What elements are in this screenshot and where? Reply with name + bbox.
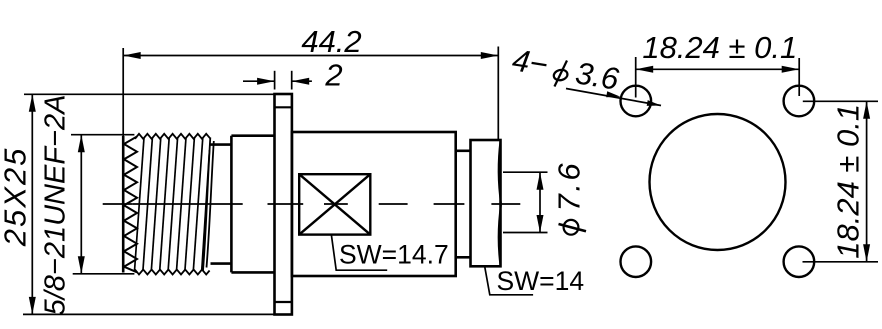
dimension 44.2 <box>497 47 499 140</box>
thread bottom serrated edge <box>135 270 210 275</box>
svg-text:18.24 ± 0.1: 18.24 ± 0.1 <box>831 104 866 259</box>
dimension 18.24 top <box>635 57 637 98</box>
front view: big circle <box>650 114 786 250</box>
leader for 4-phi3.6 <box>566 89 661 106</box>
mounting hole bottom-left <box>621 246 652 277</box>
mounting hole bottom-right <box>784 246 815 277</box>
neck between thread and step <box>211 143 232 146</box>
dimension 25X25 <box>24 93 275 95</box>
thread chamfer zigzag <box>124 137 137 273</box>
thread runout curves <box>203 138 210 271</box>
thread helix hatch lines <box>135 138 210 272</box>
svg-text:18.24 ± 0.1: 18.24 ± 0.1 <box>642 30 797 65</box>
label 4-phi3.6 <box>509 42 622 96</box>
neck between body and nut <box>456 150 471 153</box>
dimension 18.24 right <box>803 100 878 102</box>
dimension 2 (flange width) <box>274 71 276 90</box>
svg-text:2: 2 <box>324 58 342 93</box>
step section <box>230 136 233 273</box>
label SW=14 leader <box>485 267 533 295</box>
thread top serrated edge <box>135 134 210 139</box>
hex marker X-box SW=14.7 <box>299 174 370 234</box>
body rectangle <box>292 132 456 276</box>
svg-text:4−: 4− <box>510 42 550 82</box>
mounting hole top-right <box>784 86 815 117</box>
dimension phi 7.6 <box>503 171 548 173</box>
coupling nut SW=14 <box>471 140 501 266</box>
dimension 5/8-21UNEF-2A <box>71 134 134 136</box>
centerline <box>103 203 521 205</box>
label SW=14.7 leader <box>331 235 387 270</box>
svg-text:44.2: 44.2 <box>301 24 361 59</box>
svg-text:25X25: 25X25 <box>0 147 33 248</box>
flange (side view) <box>275 94 292 315</box>
mounting hole top-left <box>621 86 652 117</box>
thread left edge / 44.2 extension line <box>122 48 124 136</box>
svg-text:SW=14.7: SW=14.7 <box>339 240 449 270</box>
phi symbol of 7.6 <box>564 220 579 235</box>
svg-text:SW=14: SW=14 <box>497 266 585 296</box>
svg-text:7.6: 7.6 <box>552 161 587 212</box>
svg-text:5/8−21UNEF−2A: 5/8−21UNEF−2A <box>40 95 72 316</box>
